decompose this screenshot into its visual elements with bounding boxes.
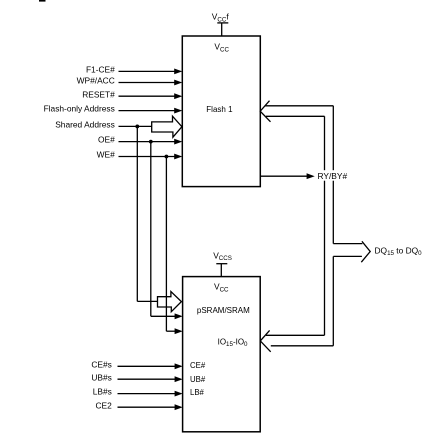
power net Vccs label <box>213 250 232 262</box>
svg-text:CE#s: CE#s <box>91 360 111 370</box>
svg-text:VCCf: VCCf <box>212 12 230 24</box>
bus wire flash DQ bottom edge <box>266 115 325 117</box>
svg-text:VCC: VCC <box>214 42 229 54</box>
svg-text:WP#/ACC: WP#/ACC <box>77 76 115 86</box>
Vcc pin label (flash) <box>214 42 229 54</box>
bus arrow Shared Address into flash <box>152 116 182 137</box>
wire OE# <box>98 135 182 145</box>
svg-text:VCC: VCC <box>214 282 229 294</box>
bus wire right vertical upper segment <box>332 106 334 244</box>
UB# pin label <box>190 375 206 384</box>
svg-text:WE#: WE# <box>97 150 115 160</box>
wire shared address vertical <box>136 126 138 301</box>
bus wire DQ branch top arm <box>333 243 362 245</box>
net label DQ15 to DQ0 <box>375 245 423 257</box>
wire shared address feed to pSRAM <box>137 300 157 302</box>
wire F1-CE# <box>86 65 182 75</box>
wire CE2 <box>96 400 183 410</box>
wire RESET# <box>82 89 182 99</box>
wire WE# into pSRAM <box>166 328 182 334</box>
svg-text:RESET#: RESET# <box>82 89 115 99</box>
wire RY/BY# <box>260 173 315 179</box>
bus arrowhead into flash DQ port <box>260 101 270 122</box>
bus arrowhead into pSRAM IO port <box>260 330 270 351</box>
svg-text:UB#s: UB#s <box>91 372 111 382</box>
svg-text:pSRAM/SRAM: pSRAM/SRAM <box>197 306 250 315</box>
svg-text:Flash 1: Flash 1 <box>206 105 233 114</box>
wire OE# vertical <box>150 142 152 317</box>
wire WP#/ACC <box>77 76 183 86</box>
svg-text:F1-CE#: F1-CE# <box>86 65 115 75</box>
wire WE# vertical <box>165 157 167 332</box>
wire UB#s <box>91 372 182 382</box>
bus arrowhead DQ15 to DQ0 <box>361 241 370 262</box>
junction dot OE# <box>149 140 153 144</box>
bus wire pSRAM IO top edge <box>266 334 325 336</box>
flash block U1 <box>182 36 260 187</box>
wire Shared Address <box>55 120 151 130</box>
power net Vccf label <box>212 12 230 24</box>
svg-text:UB#: UB# <box>190 375 206 384</box>
CE# pin label <box>190 361 206 370</box>
svg-text:CE#: CE# <box>190 361 206 370</box>
bus wire DQ branch bottom arm <box>333 255 362 257</box>
pSRAM block U2 <box>183 277 261 432</box>
LB# pin label <box>190 388 205 397</box>
IO15-IO0 pin label <box>218 337 248 348</box>
bus wire pSRAM IO bottom edge <box>271 345 334 347</box>
bus wire left vertical segment <box>324 116 326 335</box>
Vcc pin label (pSRAM) <box>214 282 229 294</box>
junction dot Shared Address <box>135 125 139 129</box>
svg-text:DQ15 to DQ0: DQ15 to DQ0 <box>375 245 423 257</box>
bus wire right vertical lower segment <box>332 256 334 345</box>
junction dot WE# <box>165 155 169 159</box>
cropped text artifact <box>39 0 46 2</box>
wire LB#s <box>93 387 183 397</box>
net label RY/BY# (white backing over bus wires) <box>317 170 350 181</box>
svg-text:LB#s: LB#s <box>93 387 112 397</box>
svg-text:RY/BY#: RY/BY# <box>318 171 348 181</box>
wire Flash-only Address <box>44 104 183 114</box>
wire CE#s <box>91 360 182 370</box>
flash name label <box>206 105 233 114</box>
power symbol Vccf <box>217 23 228 36</box>
svg-text:LB#: LB# <box>190 388 205 397</box>
svg-text:Flash-only Address: Flash-only Address <box>44 104 115 114</box>
wire OE# into pSRAM <box>151 313 183 319</box>
svg-text:CE2: CE2 <box>96 400 113 410</box>
bus wire flash DQ top edge <box>265 105 333 107</box>
wire WE# <box>97 150 183 160</box>
svg-text:IO15-IO0: IO15-IO0 <box>218 337 248 348</box>
bus arrow Shared Address into pSRAM <box>158 292 182 312</box>
svg-text:OE#: OE# <box>98 135 115 145</box>
power symbol Vccs <box>216 264 227 277</box>
svg-text:Shared Address: Shared Address <box>55 120 115 130</box>
svg-text:VCCS: VCCS <box>213 250 232 262</box>
pSRAM name label <box>197 306 250 315</box>
